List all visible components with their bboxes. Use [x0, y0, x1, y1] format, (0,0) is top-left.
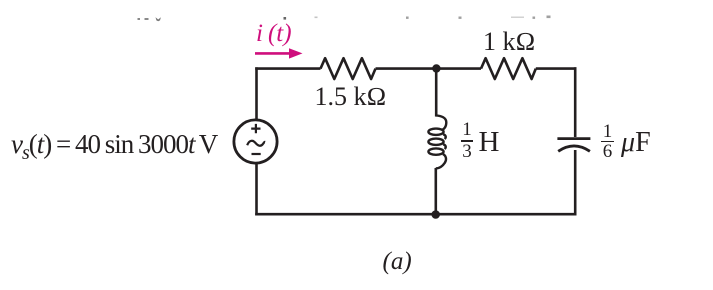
node bottom junction dot [431, 210, 440, 219]
wire top-middle horizontal [376, 67, 482, 70]
node top junction dot [432, 64, 440, 72]
capacitor C1 top plate [557, 137, 590, 140]
label inductor value 1/3 H [461, 119, 473, 142]
resistor R1 1.5 kOhm [321, 58, 376, 79]
wire left vertical upper [255, 67, 258, 119]
label source equation [11, 129, 217, 165]
wire bottom horizontal [255, 213, 576, 216]
label capacitor value 1/6 uF [602, 121, 614, 144]
resistor R2 1 kOhm [481, 58, 536, 79]
voltage source minus sign [252, 153, 261, 155]
label i(t) [256, 20, 292, 48]
wire top-left horizontal [255, 67, 320, 70]
label (a) [383, 248, 412, 276]
stray mark top artifacts [138, 16, 551, 22]
label 1 kOhm [483, 27, 535, 57]
wire right vertical lower [574, 150, 577, 216]
label 1.5 kOhm [315, 82, 387, 112]
current arrow i(t) [255, 52, 291, 55]
capacitor C1 curved plate [558, 146, 590, 151]
inductor L1 coil [428, 115, 446, 168]
wire middle vertical upper [435, 69, 438, 117]
wire right vertical upper [574, 67, 577, 137]
wire top-right horizontal [536, 67, 577, 70]
voltage source VS circle [234, 120, 277, 163]
voltage source plus sign [251, 124, 260, 133]
voltage source sine tilde [247, 141, 265, 146]
wire middle vertical lower [434, 168, 437, 214]
wire left vertical lower [255, 164, 258, 215]
